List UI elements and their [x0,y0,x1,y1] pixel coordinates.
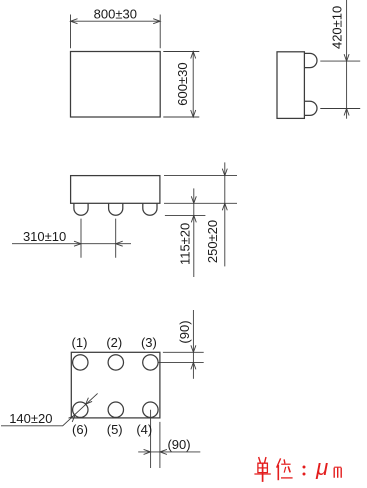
svg-text:(3): (3) [141,335,157,350]
svg-text:140±20: 140±20 [9,411,52,426]
svg-text:600±30: 600±30 [175,62,190,105]
svg-text:(4): (4) [136,422,152,437]
svg-text:μ: μ [315,455,328,480]
svg-text:800±30: 800±30 [94,7,137,22]
svg-text:(1): (1) [72,335,88,350]
svg-text:(6): (6) [72,422,88,437]
svg-text:420±10: 420±10 [330,6,345,49]
svg-text:310±10: 310±10 [23,229,66,244]
svg-text:115±20: 115±20 [177,223,192,265]
svg-text:(90): (90) [167,437,190,452]
svg-text:(5): (5) [107,422,123,437]
svg-text:250±20: 250±20 [205,220,220,263]
svg-text:(2): (2) [106,335,122,350]
svg-text:(90): (90) [177,320,192,343]
